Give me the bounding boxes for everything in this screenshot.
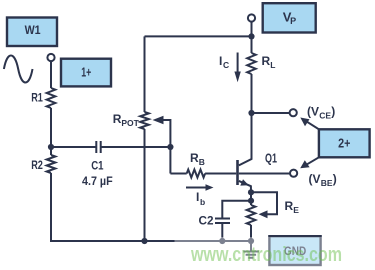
svg-text:2+: 2+	[338, 135, 351, 150]
bottom rail	[51, 240, 251, 242]
pot wiper arrow	[160, 120, 170, 174]
wire emitter to RE wiper	[251, 192, 277, 214]
svg-text:CE: CE	[319, 111, 331, 121]
emitter vertical wire	[250, 192, 252, 205]
resistor RB	[187, 170, 205, 178]
wire to VCE terminal	[252, 112, 290, 114]
wire VP terminal	[251, 22, 253, 53]
resistor RL	[247, 53, 256, 74]
capacitor C2	[215, 219, 230, 224]
wire C2 to rail	[221, 223, 223, 241]
svg-text:(V: (V	[307, 105, 319, 119]
wire wiper to RB	[170, 173, 186, 175]
IC arrow	[237, 53, 239, 74]
node junction wiper/C1	[167, 144, 173, 150]
svg-text:C2: C2	[199, 214, 214, 228]
svg-text:(V: (V	[309, 172, 321, 186]
scope box 1+	[61, 59, 111, 87]
wire base to VBE terminal	[239, 173, 290, 175]
svg-text:P: P	[290, 16, 296, 26]
transistor Q1 collector lead	[239, 113, 252, 165]
svg-text:I: I	[196, 190, 199, 204]
wire RB to base	[205, 173, 236, 175]
sine wave symbol	[4, 56, 33, 83]
terminal VP	[248, 14, 255, 21]
wire terminal to R1	[50, 61, 52, 88]
svg-text:R: R	[190, 151, 199, 165]
wire C1 to wiper node	[101, 146, 171, 148]
svg-text:B: B	[199, 157, 205, 167]
svg-text:R2: R2	[31, 158, 43, 172]
node junction VP/top rail	[248, 33, 254, 39]
top rail	[145, 35, 252, 37]
wire node to C1	[51, 146, 96, 148]
terminal VBE	[290, 170, 297, 177]
svg-text:www.cntronics.com: www.cntronics.com	[190, 244, 342, 266]
arrow 2+ to VBE	[305, 157, 319, 166]
svg-text:): )	[331, 105, 335, 119]
resistor RE	[247, 205, 256, 225]
svg-text:4.7 µF: 4.7 µF	[82, 174, 113, 188]
svg-text:b: b	[200, 197, 205, 207]
svg-text:L: L	[270, 60, 275, 70]
supply box VP	[263, 3, 316, 32]
wire emitter node to C2	[222, 201, 251, 219]
svg-text:R: R	[262, 54, 271, 68]
svg-text:Q1: Q1	[265, 151, 277, 166]
potentiometer lower leg	[144, 129, 146, 241]
generator box W1	[7, 18, 57, 47]
resistor R1	[47, 88, 56, 108]
wire RL to collector node	[251, 74, 253, 113]
resistor R2	[47, 155, 56, 173]
wire RE to ground rail	[250, 225, 252, 241]
svg-text:E: E	[293, 205, 299, 215]
collector node junction	[248, 110, 254, 116]
watermark band	[175, 237, 375, 270]
rail junction pot	[141, 238, 147, 244]
svg-text:POT: POT	[121, 118, 139, 128]
ground box GND	[269, 236, 320, 265]
emitter node junction 1	[248, 189, 254, 195]
svg-text:BE: BE	[321, 178, 333, 188]
svg-text:R: R	[285, 199, 294, 213]
transistor Q1 base bar	[236, 160, 239, 185]
svg-text:W1: W1	[25, 23, 41, 37]
rail junction ground	[248, 238, 254, 244]
terminal VCE	[290, 109, 297, 116]
scope box 2+	[319, 129, 370, 157]
potentiometer RPOT	[140, 112, 149, 129]
svg-text:): )	[333, 172, 337, 186]
transistor Q1 emitter lead	[239, 181, 251, 192]
ground symbol	[250, 241, 252, 251]
terminal 1+	[47, 54, 54, 61]
svg-text:R1: R1	[31, 91, 43, 105]
svg-text:1+: 1+	[81, 65, 91, 80]
potentiometer RPOT upper leg	[144, 36, 146, 112]
wire R2 to bottom rail	[51, 173, 145, 241]
svg-text:I: I	[219, 54, 222, 68]
rail junction C2	[219, 238, 225, 244]
capacitor C1	[96, 141, 100, 153]
svg-text:C1: C1	[91, 159, 104, 173]
emitter node junction 2	[248, 198, 254, 204]
Ib arrow	[186, 187, 208, 189]
wire R1 to node	[50, 108, 52, 155]
node junction R1/R2/C1	[48, 144, 54, 150]
arrow 2+ to VCE	[305, 120, 319, 129]
svg-text:C: C	[223, 60, 229, 70]
